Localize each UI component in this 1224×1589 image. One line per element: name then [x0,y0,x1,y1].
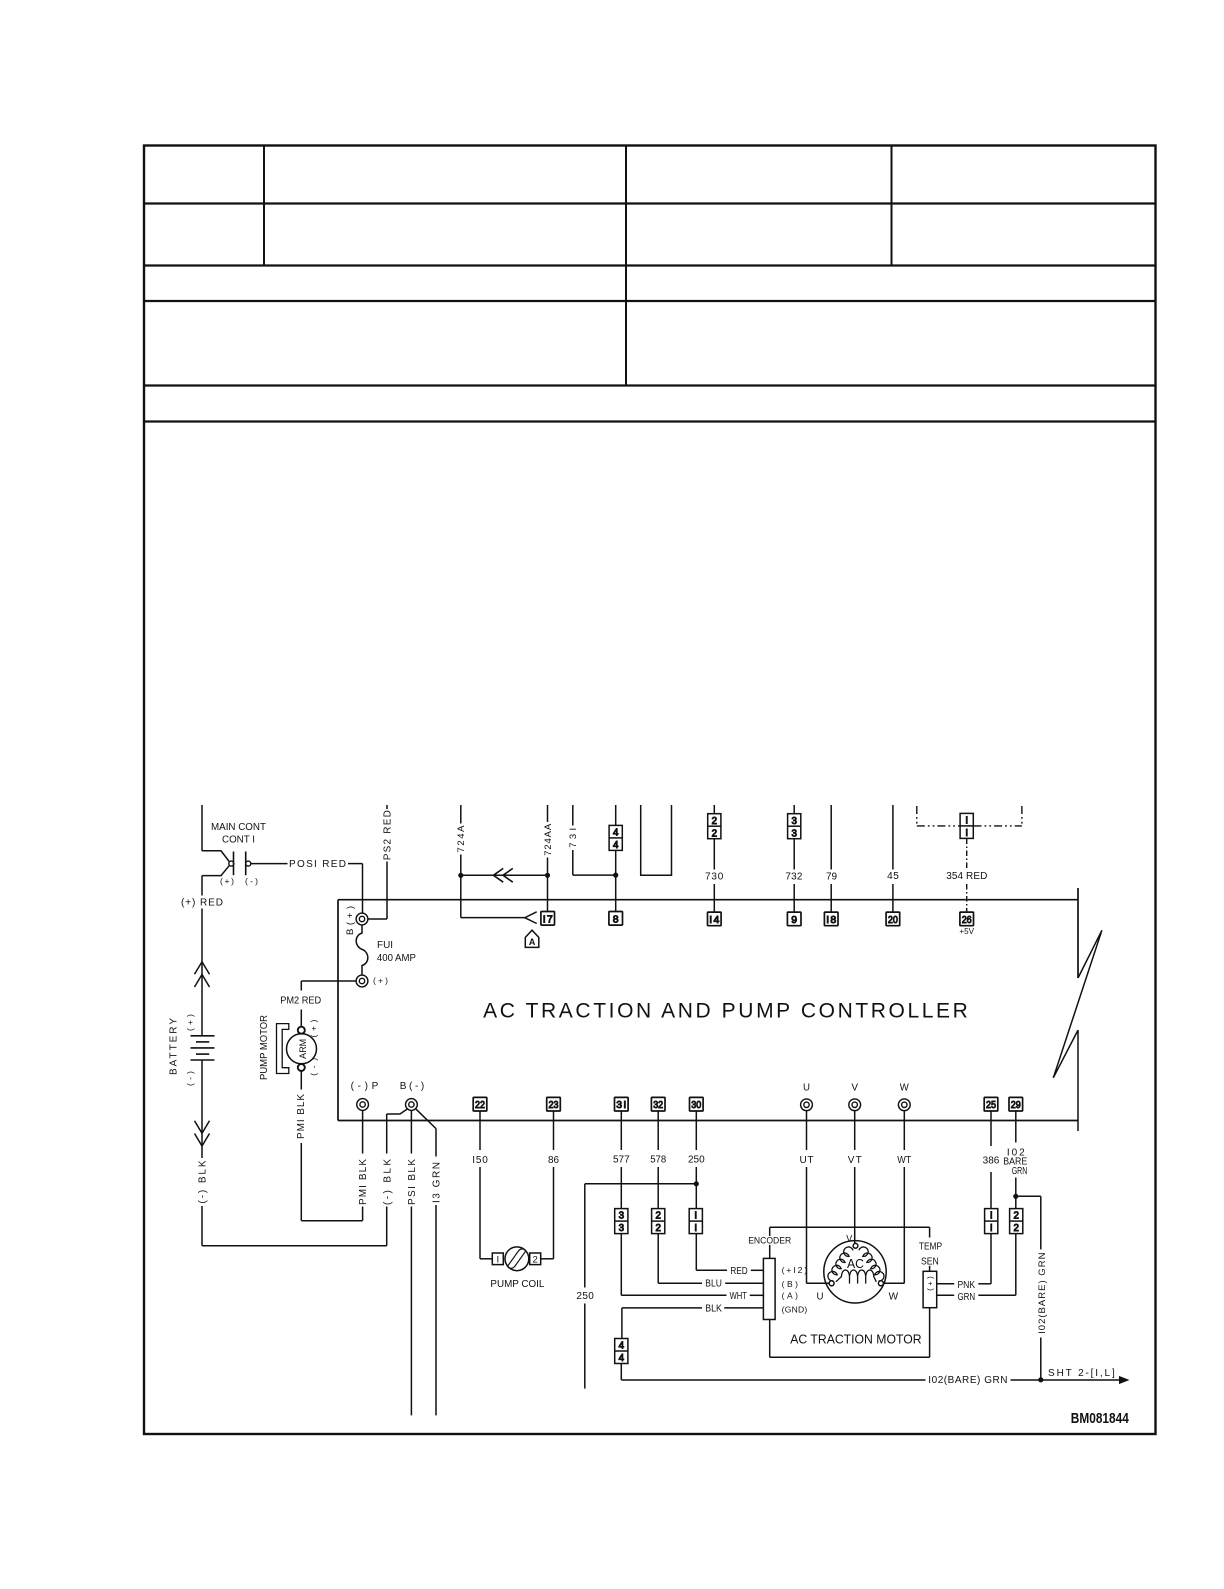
svg-text:730: 730 [705,872,724,883]
svg-text:MAIN CONT: MAIN CONT [211,822,266,833]
svg-text:2: 2 [1013,1211,1018,1222]
svg-text:2: 2 [655,1211,660,1222]
svg-text:I: I [694,1223,697,1234]
svg-text:(+): (+) [220,876,234,886]
svg-text:PUMP COIL: PUMP COIL [490,1279,544,1290]
svg-text:73I: 73I [568,828,579,848]
svg-text:(-): (-) [245,876,258,886]
svg-text:UT: UT [800,1155,814,1166]
svg-text:AC: AC [847,1256,864,1271]
svg-text:BM081844: BM081844 [1071,1410,1130,1427]
svg-text:I02(BARE) GRN: I02(BARE) GRN [928,1375,1007,1386]
svg-text:I: I [990,1223,993,1234]
svg-text:ENCODER: ENCODER [748,1235,791,1246]
svg-text:I8: I8 [826,914,836,926]
svg-text:WHT: WHT [730,1291,747,1302]
svg-text:29: 29 [1011,1099,1021,1111]
svg-text:(+): (+) [373,976,388,986]
svg-text:PMI BLK: PMI BLK [296,1094,307,1139]
svg-text:PMI BLK: PMI BLK [358,1159,369,1205]
svg-text:3: 3 [619,1223,625,1234]
svg-text:PS2 RED: PS2 RED [383,810,394,860]
svg-text:250: 250 [688,1155,705,1166]
svg-text:V: V [846,1233,852,1245]
svg-text:(A): (A) [782,1291,798,1301]
svg-text:2: 2 [533,1254,538,1265]
svg-text:VT: VT [848,1155,862,1166]
svg-text:PNK: PNK [957,1280,975,1291]
svg-text:(+): (+) [308,1019,318,1037]
svg-text:I: I [496,1254,499,1265]
svg-text:I: I [965,828,968,839]
svg-text:A: A [529,937,536,947]
svg-text:(+): (+) [925,1276,934,1291]
svg-text:AC TRACTION MOTOR: AC TRACTION MOTOR [790,1332,921,1346]
svg-text:TEMP: TEMP [919,1242,943,1253]
svg-text:POSI RED: POSI RED [289,859,346,870]
svg-text:I50: I50 [472,1155,488,1166]
svg-text:I02(BARE) GRN: I02(BARE) GRN [1037,1252,1048,1333]
svg-text:U: U [817,1290,824,1302]
svg-text:SHT 2-[I,L]: SHT 2-[I,L] [1048,1368,1115,1379]
svg-text:I7: I7 [543,913,553,925]
svg-text:8: 8 [613,913,619,925]
svg-text:25: 25 [986,1099,996,1111]
svg-text:3: 3 [791,816,797,827]
svg-text:22: 22 [475,1099,485,1111]
svg-text:CONT I: CONT I [222,835,255,846]
svg-text:AC TRACTION AND PUMP CONTROLLE: AC TRACTION AND PUMP CONTROLLER [483,1000,968,1023]
svg-text:4: 4 [613,840,619,851]
svg-text:GRN: GRN [957,1292,975,1303]
svg-text:(+) RED: (+) RED [181,898,223,909]
svg-text:(-) BLK: (-) BLK [382,1159,393,1205]
svg-text:FUI: FUI [377,940,393,951]
svg-text:I4: I4 [709,914,719,926]
svg-text:(GND): (GND) [782,1304,808,1314]
svg-text:ARM: ARM [298,1039,308,1059]
svg-text:4: 4 [613,828,619,839]
svg-text:(+): (+) [185,1014,195,1031]
svg-text:2: 2 [712,828,717,839]
svg-text:I3 GRN: I3 GRN [432,1162,443,1203]
svg-text:732: 732 [785,872,802,883]
svg-text:26: 26 [962,914,972,926]
svg-text:577: 577 [613,1155,630,1166]
svg-text:3: 3 [619,1211,625,1222]
svg-text:W: W [900,1082,910,1093]
svg-text:2: 2 [1013,1223,1018,1234]
svg-text:(-): (-) [308,1058,318,1076]
svg-text:(B): (B) [782,1279,798,1289]
svg-text:(+I2): (+I2) [782,1265,808,1275]
svg-text:I: I [694,1211,697,1222]
svg-text:+5V: +5V [959,926,974,936]
svg-text:2: 2 [712,816,717,827]
svg-text:86: 86 [548,1155,559,1166]
svg-text:724A: 724A [456,825,467,853]
svg-text:386: 386 [983,1155,1000,1166]
svg-text:B(-): B(-) [400,1081,425,1092]
svg-text:20: 20 [888,914,898,926]
svg-text:4: 4 [619,1341,625,1352]
svg-text:WT: WT [897,1155,911,1166]
svg-text:250: 250 [576,1291,594,1302]
svg-text:9: 9 [791,914,797,926]
svg-text:RED: RED [730,1266,747,1277]
svg-text:SEN: SEN [921,1257,939,1268]
svg-text:(-): (-) [185,1071,195,1086]
svg-text:23: 23 [549,1099,559,1111]
svg-text:PUMP MOTOR: PUMP MOTOR [259,1015,270,1080]
svg-text:45: 45 [887,871,899,882]
svg-text:2: 2 [655,1223,660,1234]
svg-text:BLK: BLK [705,1303,722,1314]
svg-text:30: 30 [691,1099,701,1111]
svg-text:GRN: GRN [1012,1166,1028,1177]
svg-text:4: 4 [619,1353,625,1364]
svg-text:724AA: 724AA [543,823,554,856]
svg-text:PM2 RED: PM2 RED [280,995,321,1006]
svg-text:(-) BLK: (-) BLK [198,1160,209,1203]
svg-text:32: 32 [653,1099,663,1111]
svg-text:W: W [889,1290,899,1302]
svg-text:3I: 3I [616,1099,626,1111]
svg-text:I: I [990,1211,993,1222]
svg-text:578: 578 [650,1155,666,1166]
svg-text:BLU: BLU [705,1278,722,1289]
svg-text:U: U [803,1082,810,1093]
svg-text:3: 3 [791,828,797,839]
svg-text:I: I [965,816,968,827]
svg-text:400 AMP: 400 AMP [377,953,416,964]
svg-text:V: V [851,1082,858,1093]
svg-text:354 RED: 354 RED [946,871,987,882]
svg-text:79: 79 [826,872,838,883]
